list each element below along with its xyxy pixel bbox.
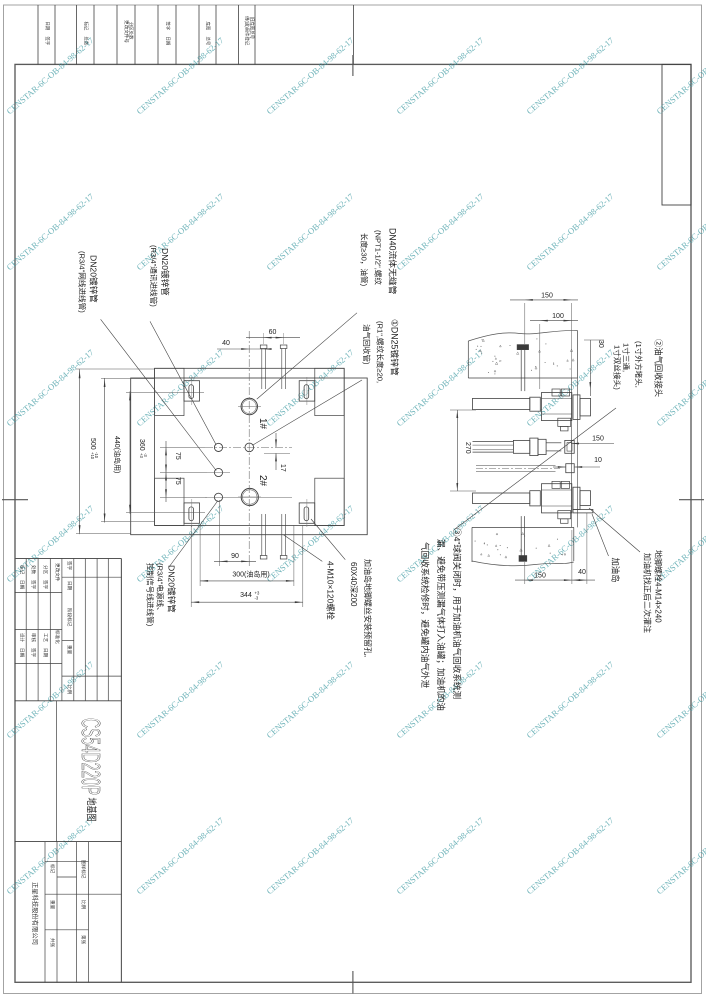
svg-text:150: 150: [592, 436, 604, 443]
svg-text:第张: 第张: [80, 935, 87, 945]
svg-text:CENSTAR-6C-OB-84-98-62-17: CENSTAR-6C-OB-84-98-62-17: [524, 191, 616, 272]
svg-text:60: 60: [269, 329, 277, 336]
svg-text:-3: -3: [255, 596, 259, 601]
svg-text:CENSTAR-6C-OB-84-98-62-17: CENSTAR-6C-OB-84-98-62-17: [524, 815, 616, 896]
svg-text:比例: 比例: [80, 900, 87, 910]
svg-text:图样标记: 图样标记: [80, 860, 87, 879]
svg-text:CENSTAR-6C-OB-84-98-62-17: CENSTAR-6C-OB-84-98-62-17: [4, 347, 96, 428]
svg-text:重量: 重量: [66, 645, 73, 655]
svg-text:90: 90: [231, 553, 239, 560]
svg-text:共张: 共张: [49, 938, 56, 948]
svg-text:旧底图总号: 旧底图总号: [249, 17, 256, 40]
svg-text:CENSTAR-6C-OB-84-98-62-17: CENSTAR-6C-OB-84-98-62-17: [264, 347, 356, 428]
svg-text:DN20镀锌管: DN20镀锌管: [160, 248, 171, 296]
svg-text:150: 150: [541, 293, 553, 300]
svg-text:(R3/4"网线进线管): (R3/4"网线进线管): [78, 251, 88, 313]
svg-text:-10: -10: [94, 452, 99, 459]
svg-text:CENSTAR-6C-OB-84-98-62-17: CENSTAR-6C-OB-84-98-62-17: [134, 659, 226, 740]
svg-text:10: 10: [594, 457, 602, 464]
svg-text:270: 270: [464, 442, 471, 454]
svg-text:CENSTAR-6C-OB-84-98-62-17: CENSTAR-6C-OB-84-98-62-17: [654, 815, 706, 896]
svg-text:日期: 日期: [66, 581, 72, 591]
svg-text:控制信号线进线管): 控制信号线进线管): [146, 563, 156, 627]
svg-text:CENSTAR-6C-OB-84-98-62-17: CENSTAR-6C-OB-84-98-62-17: [264, 35, 356, 116]
svg-text:比例: 比例: [66, 685, 73, 695]
svg-text:CENSTAR-6C-OB-84-98-62-17: CENSTAR-6C-OB-84-98-62-17: [394, 35, 486, 116]
svg-text:75: 75: [174, 477, 181, 485]
svg-text:日期: 日期: [165, 37, 171, 46]
svg-text:CENSTAR-6C-OB-84-98-62-17: CENSTAR-6C-OB-84-98-62-17: [264, 191, 356, 272]
svg-text:标记: 标记: [19, 565, 26, 575]
svg-text:审核: 审核: [30, 633, 37, 643]
svg-text:工艺: 工艺: [43, 633, 48, 643]
svg-text:440(油岛用): 440(油岛用): [113, 436, 122, 473]
svg-text:②油气回收接头: ②油气回收接头: [654, 339, 664, 397]
svg-text:签字: 签字: [43, 580, 49, 590]
svg-text:签字: 签字: [45, 37, 51, 46]
svg-text:150: 150: [534, 573, 546, 580]
svg-text:(NPT1-1/2",螺纹: (NPT1-1/2",螺纹: [374, 230, 384, 285]
svg-text:CENSTAR-6C-OB-84-98-62-17: CENSTAR-6C-OB-84-98-62-17: [264, 815, 356, 896]
svg-text:CENSTAR-6C-OB-84-98-62-17: CENSTAR-6C-OB-84-98-62-17: [134, 191, 226, 272]
svg-text:CENSTAR-6C-OB-84-98-62-17: CENSTAR-6C-OB-84-98-62-17: [654, 659, 706, 740]
svg-text:1寸双丝接头): 1寸双丝接头): [613, 345, 623, 390]
svg-text:签字: 签字: [31, 648, 37, 658]
svg-text:CENSTAR-6C-OB-84-98-62-17: CENSTAR-6C-OB-84-98-62-17: [524, 35, 616, 116]
svg-text:300(油岛用): 300(油岛用): [232, 570, 269, 579]
svg-text:处数: 处数: [30, 565, 37, 575]
svg-text:(R3/4"电源线、: (R3/4"电源线、: [156, 563, 166, 615]
svg-text:CENSTAR-6C-OB-84-98-62-17: CENSTAR-6C-OB-84-98-62-17: [264, 503, 356, 584]
svg-text:更改文件: 更改文件: [54, 563, 61, 582]
svg-text:360: 360: [138, 439, 145, 451]
svg-text:加油岛地脚螺丝安装预留孔,: 加油岛地脚螺丝安装预留孔,: [363, 559, 373, 657]
svg-text:设计: 设计: [19, 633, 26, 643]
svg-text:漏、避免带压测漏气体打入油罐；加油机的油: 漏、避免带压测漏气体打入油罐；加油机的油: [436, 539, 447, 711]
svg-text:日期: 日期: [19, 648, 25, 658]
svg-text:长度≥30，油管): 长度≥30，油管): [360, 233, 370, 287]
svg-text:CENSTAR-6C-OB-84-98-62-17: CENSTAR-6C-OB-84-98-62-17: [394, 191, 486, 272]
svg-text:CENSTAR-6C-OB-84-98-62-17: CENSTAR-6C-OB-84-98-62-17: [134, 815, 226, 896]
svg-text:阶段标记: 阶段标记: [66, 608, 73, 627]
svg-text:气回收系统检修时，避免罐内油气外泄: 气回收系统检修时，避免罐内油气外泄: [420, 542, 431, 689]
svg-text:75: 75: [174, 452, 181, 460]
svg-text:40: 40: [222, 340, 230, 347]
svg-text:100: 100: [552, 313, 564, 320]
svg-text:CENSTAR-6C-OB-84-98-62-17: CENSTAR-6C-OB-84-98-62-17: [524, 659, 616, 740]
svg-text:地基图: 地基图: [85, 798, 98, 822]
svg-text:500: 500: [89, 438, 96, 450]
svg-text:签字: 签字: [31, 580, 37, 590]
svg-text:日期: 日期: [42, 648, 48, 658]
svg-text:CENSTAR-6C-OB-84-98-62-17: CENSTAR-6C-OB-84-98-62-17: [524, 347, 616, 428]
svg-text:30: 30: [597, 340, 604, 348]
svg-text:17: 17: [279, 464, 286, 472]
svg-text:DN40流体无缝管: DN40流体无缝管: [388, 228, 399, 295]
svg-text:60X40深200: 60X40深200: [349, 562, 358, 607]
svg-text:CS54D220P: CS54D220P: [76, 718, 106, 795]
svg-text:标记: 标记: [49, 864, 56, 874]
svg-text:借(通)用件登记: 借(通)用件登记: [244, 16, 251, 46]
svg-text:(R1",螺纹长度≥20,: (R1",螺纹长度≥20,: [376, 321, 386, 383]
svg-text:加油岛: 加油岛: [610, 558, 620, 583]
svg-text:日期: 日期: [19, 580, 25, 590]
svg-text:CENSTAR-6C-OB-84-98-62-17: CENSTAR-6C-OB-84-98-62-17: [134, 35, 226, 116]
svg-text:地脚螺栓4-M14×240: 地脚螺栓4-M14×240: [654, 550, 664, 623]
svg-text:签字: 签字: [67, 561, 73, 571]
svg-text:底图: 底图: [205, 22, 212, 31]
svg-text:40: 40: [578, 569, 586, 576]
svg-text:加油机找正后二次灌注: 加油机找正后二次灌注: [643, 553, 653, 633]
svg-text:重量: 重量: [49, 900, 56, 910]
svg-text:签字: 签字: [166, 22, 172, 31]
svg-text:CENSTAR-6C-OB-84-98-62-17: CENSTAR-6C-OB-84-98-62-17: [134, 347, 226, 428]
svg-text:正星科技股份有限公司: 正星科技股份有限公司: [31, 882, 40, 945]
svg-text:344: 344: [240, 592, 252, 599]
svg-text:DN20镀锌管: DN20镀锌管: [89, 255, 100, 303]
svg-text:日期: 日期: [44, 22, 50, 31]
svg-text:③4"球阀关闭时，用于加油机油气回收系统测: ③4"球阀关闭时，用于加油机油气回收系统测: [452, 528, 463, 699]
svg-text:CENSTAR-6C-OB-84-98-62-17: CENSTAR-6C-OB-84-98-62-17: [4, 35, 96, 116]
svg-text:DN20镀锌管: DN20镀锌管: [167, 565, 178, 613]
svg-text:CENSTAR-6C-OB-84-98-62-17: CENSTAR-6C-OB-84-98-62-17: [4, 815, 96, 896]
svg-text:(R3/4"通讯进线管): (R3/4"通讯进线管): [149, 245, 159, 307]
svg-text:①DN25镀锌管: ①DN25镀锌管: [390, 319, 401, 376]
svg-text:1寸三通,: 1寸三通,: [622, 343, 632, 372]
svg-text:1#: 1#: [257, 418, 268, 430]
svg-text:CENSTAR-6C-OB-84-98-62-17: CENSTAR-6C-OB-84-98-62-17: [394, 815, 486, 896]
svg-text:2#: 2#: [257, 475, 268, 487]
svg-text:分区: 分区: [42, 565, 49, 575]
svg-text:标准化: 标准化: [54, 630, 61, 644]
svg-text:CENSTAR-6C-OB-84-98-62-17: CENSTAR-6C-OB-84-98-62-17: [394, 347, 486, 428]
svg-text:分区处数: 分区处数: [128, 22, 135, 40]
svg-text:CENSTAR-6C-OB-84-98-62-17: CENSTAR-6C-OB-84-98-62-17: [264, 659, 356, 740]
svg-text:油气回收管): 油气回收管): [362, 324, 372, 365]
svg-text:4-M10×120螺栓: 4-M10×120螺栓: [326, 561, 336, 621]
svg-text:(1寸外方堵头,: (1寸外方堵头,: [634, 341, 644, 388]
svg-text:标记: 标记: [83, 22, 90, 31]
